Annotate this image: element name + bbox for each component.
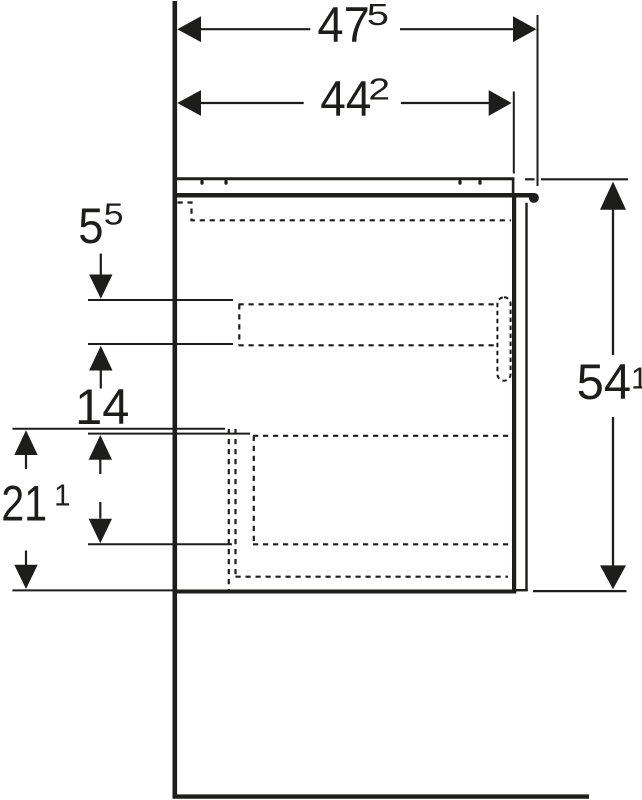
svg-text:5: 5 xyxy=(367,0,389,32)
dim 44.2 right arrow xyxy=(489,90,512,116)
cabinet door front panel xyxy=(525,203,527,591)
washbasin bottom edge (thick) xyxy=(177,193,533,198)
fixing clip dot 3 xyxy=(458,180,461,185)
line L3 (21.1 top) xyxy=(12,428,225,430)
arrow B stem xyxy=(100,370,102,389)
shelf line L1 (5.5 top) xyxy=(88,299,233,301)
fixing clip dot 1 xyxy=(200,180,203,185)
arrow F stem xyxy=(99,502,101,519)
extension line for 47.5 xyxy=(537,15,539,186)
fixing clip dot 2 xyxy=(224,180,227,185)
dim 54.1 top tick (short seg) xyxy=(525,178,535,180)
svg-text:1: 1 xyxy=(54,479,70,513)
arrow B up head xyxy=(89,346,112,371)
svg-text:14: 14 xyxy=(75,379,129,435)
floor line xyxy=(173,794,590,798)
extension line for 44.2 xyxy=(513,92,515,174)
arrow D stem xyxy=(99,459,101,474)
arrow E stem (21.1) xyxy=(25,551,27,566)
dim 47.5 line left segment xyxy=(201,28,310,30)
upper drawer dashed box xyxy=(239,304,498,345)
shelf line L2 (5.5 bottom) xyxy=(88,343,233,345)
line L4 (14 bottom) xyxy=(88,433,250,435)
dim 44.2 line right segment xyxy=(401,102,489,104)
dim 54.1 top tick (long seg) xyxy=(541,178,628,180)
dim 44.2 line left segment xyxy=(201,102,304,104)
arrow F down head xyxy=(89,519,112,544)
line L6 xyxy=(88,543,232,545)
washbasin top edge xyxy=(177,177,514,180)
svg-text:1: 1 xyxy=(631,361,642,395)
basin hidden outline (dashed) xyxy=(178,203,512,221)
cabinet right side panel xyxy=(512,196,516,592)
dim 54.1 stem lower xyxy=(612,417,614,566)
svg-text:54: 54 xyxy=(577,355,632,411)
dim 47.5 left arrow xyxy=(177,16,201,42)
svg-text:21: 21 xyxy=(1,475,47,532)
door bottom edge xyxy=(516,589,528,591)
dim 47.5 line right segment xyxy=(400,28,513,30)
drawer rail capsule (dashed rounded rect) xyxy=(497,297,510,380)
svg-text:2: 2 xyxy=(368,72,390,106)
lower drawer dashed box xyxy=(236,436,512,577)
dim 54.1 bottom tick xyxy=(533,590,627,592)
line L5 (21.1 bottom) xyxy=(12,589,172,591)
svg-text:5: 5 xyxy=(104,198,124,232)
lower drawer dashed vertical V1 xyxy=(228,429,230,590)
arrow C up head (21.1) xyxy=(14,430,37,455)
wall (left vertical) xyxy=(173,1,178,796)
cabinet bottom (thick) xyxy=(177,590,516,594)
arrow C stem xyxy=(25,454,27,469)
dim 54.1 up arrow xyxy=(600,182,626,210)
arrow D up head (14) xyxy=(89,435,112,460)
dim 54.1 stem upper xyxy=(612,210,614,356)
lower drawer dashed vertical V2 xyxy=(234,429,236,577)
dim 44.2 left arrow xyxy=(177,90,201,116)
arrow E down head xyxy=(14,565,37,589)
fixing clip dot 4 xyxy=(478,180,481,185)
arrow A down head xyxy=(89,275,112,299)
svg-text:44: 44 xyxy=(320,72,371,127)
dim 54.1 down arrow xyxy=(600,565,626,589)
svg-text:47: 47 xyxy=(317,0,369,53)
arrow A stem (5.5) xyxy=(100,254,102,275)
washbasin right corner vertical xyxy=(512,178,515,196)
dim 47.5 right arrow xyxy=(513,16,536,42)
svg-text:5: 5 xyxy=(78,199,103,254)
washbasin lip hook (right rounded tip) xyxy=(529,193,539,203)
